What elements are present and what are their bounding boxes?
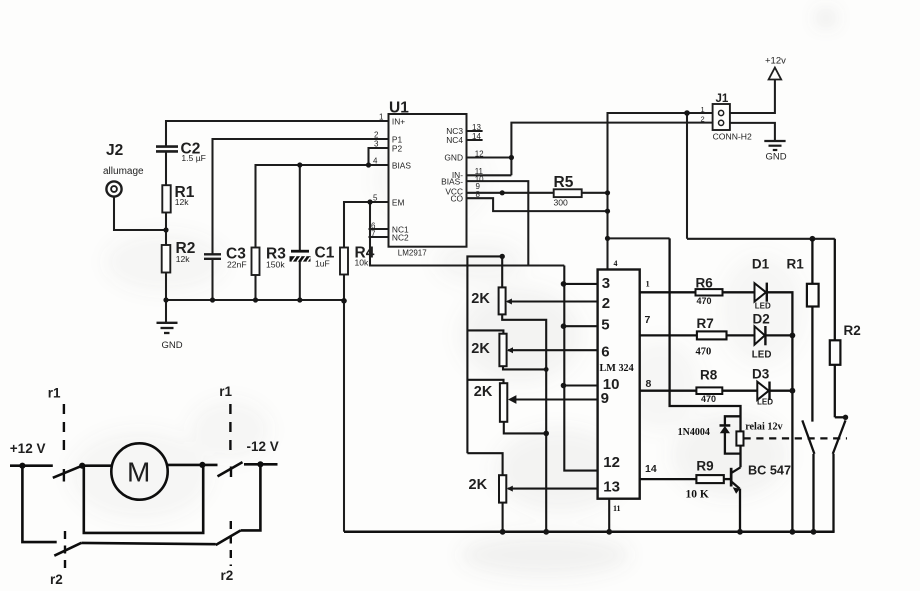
svg-text:r2: r2 xyxy=(221,568,234,583)
svg-text:R9: R9 xyxy=(696,458,713,473)
svg-text:r1: r1 xyxy=(219,384,232,399)
svg-text:1: 1 xyxy=(701,105,705,114)
svg-text:12: 12 xyxy=(603,454,620,471)
svg-text:150k: 150k xyxy=(266,260,285,270)
svg-text:13: 13 xyxy=(472,123,481,132)
svg-text:CO: CO xyxy=(450,193,463,203)
svg-text:LED: LED xyxy=(752,350,772,361)
svg-text:BIAS-: BIAS- xyxy=(441,176,463,186)
svg-text:300: 300 xyxy=(554,198,569,208)
svg-text:+12v: +12v xyxy=(765,56,786,67)
svg-text:D2: D2 xyxy=(753,312,770,327)
svg-text:4: 4 xyxy=(373,157,378,166)
svg-text:1uF: 1uF xyxy=(315,259,330,269)
svg-text:5: 5 xyxy=(373,194,378,203)
svg-text:2K: 2K xyxy=(471,341,490,357)
svg-text:14: 14 xyxy=(645,463,657,475)
svg-text:3: 3 xyxy=(602,275,610,292)
svg-text:1: 1 xyxy=(379,113,384,122)
svg-text:J2: J2 xyxy=(106,142,123,159)
svg-text:GND: GND xyxy=(766,152,787,163)
svg-text:470: 470 xyxy=(701,394,716,404)
svg-text:r1: r1 xyxy=(48,386,61,401)
svg-text:NC4: NC4 xyxy=(446,135,463,145)
svg-text:10 K: 10 K xyxy=(686,488,709,500)
svg-text:NC2: NC2 xyxy=(392,232,409,242)
svg-text:LM 324: LM 324 xyxy=(600,363,634,374)
svg-text:12k: 12k xyxy=(176,254,191,264)
svg-text:R7: R7 xyxy=(697,316,714,331)
svg-text:8: 8 xyxy=(476,190,481,199)
svg-text:6: 6 xyxy=(601,344,609,361)
svg-text:9: 9 xyxy=(601,390,609,407)
svg-text:LED: LED xyxy=(757,398,773,407)
svg-text:2K: 2K xyxy=(469,477,488,493)
svg-text:D1: D1 xyxy=(752,257,770,272)
svg-text:14: 14 xyxy=(472,132,481,141)
svg-text:7: 7 xyxy=(645,314,651,326)
svg-text:BIAS: BIAS xyxy=(392,160,411,170)
svg-text:2K: 2K xyxy=(474,384,493,400)
svg-text:CONN-H2: CONN-H2 xyxy=(713,132,752,142)
svg-text:M: M xyxy=(127,457,150,488)
svg-text:12: 12 xyxy=(475,150,484,159)
svg-text:LM2917: LM2917 xyxy=(398,248,427,257)
svg-text:22nF: 22nF xyxy=(227,260,247,270)
svg-text:allumage: allumage xyxy=(103,166,144,177)
svg-text:7: 7 xyxy=(371,230,376,239)
svg-text:3: 3 xyxy=(374,140,379,149)
svg-text:13: 13 xyxy=(603,479,620,496)
svg-text:2K: 2K xyxy=(471,291,490,307)
svg-text:GND: GND xyxy=(162,340,183,351)
svg-text:2: 2 xyxy=(602,295,610,312)
svg-text:R8: R8 xyxy=(700,367,718,382)
svg-text:LED: LED xyxy=(755,301,771,310)
svg-text:D3: D3 xyxy=(752,367,770,382)
svg-text:R1: R1 xyxy=(787,257,805,272)
svg-text:J1: J1 xyxy=(716,93,729,105)
svg-text:2: 2 xyxy=(374,131,379,140)
svg-text:1N4004: 1N4004 xyxy=(678,427,710,438)
svg-text:11: 11 xyxy=(613,504,621,513)
svg-text:12k: 12k xyxy=(175,197,190,207)
svg-text:GND: GND xyxy=(444,152,463,162)
svg-text:R6: R6 xyxy=(696,275,714,290)
svg-text:2: 2 xyxy=(701,115,705,124)
svg-text:U1: U1 xyxy=(389,100,409,117)
svg-text:5: 5 xyxy=(601,317,609,334)
svg-text:+12 V: +12 V xyxy=(10,441,46,456)
svg-text:EM: EM xyxy=(392,197,405,207)
svg-text:1: 1 xyxy=(646,279,650,289)
svg-text:R2: R2 xyxy=(844,323,861,338)
svg-text:P2: P2 xyxy=(392,143,403,153)
svg-text:4: 4 xyxy=(614,259,618,268)
svg-text:10k: 10k xyxy=(355,258,370,268)
svg-text:BC 547: BC 547 xyxy=(748,464,791,478)
svg-text:470: 470 xyxy=(697,296,712,306)
svg-text:1.5 µF: 1.5 µF xyxy=(181,153,206,163)
svg-text:470: 470 xyxy=(696,347,712,358)
svg-text:r2: r2 xyxy=(50,572,63,587)
svg-text:-12 V: -12 V xyxy=(247,439,279,454)
svg-text:IN+: IN+ xyxy=(392,116,405,126)
svg-text:relai 12v: relai 12v xyxy=(745,422,783,433)
svg-text:8: 8 xyxy=(646,378,652,390)
svg-text:R5: R5 xyxy=(554,174,574,191)
